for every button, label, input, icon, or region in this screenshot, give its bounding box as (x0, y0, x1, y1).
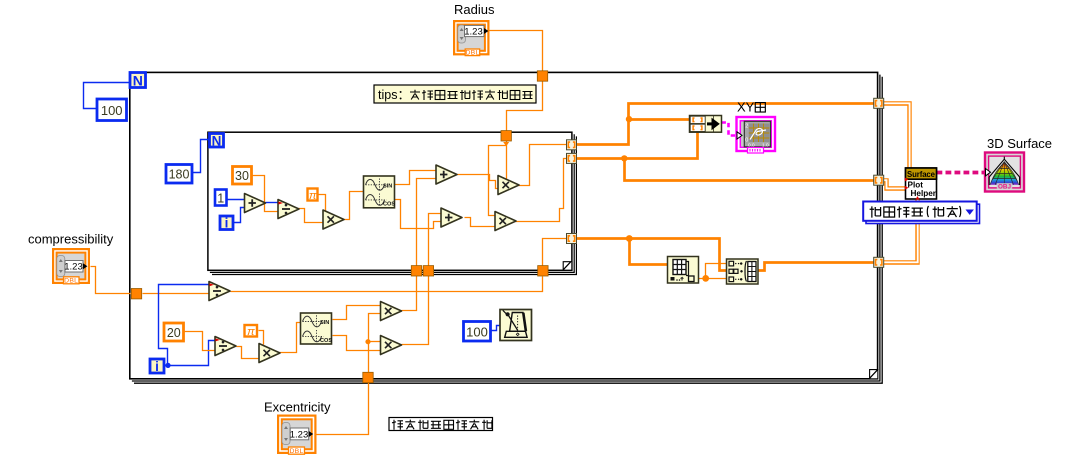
XY graph terminal (737, 117, 776, 153)
red coercion dot divide inner (279, 202, 283, 205)
svg-text:100: 100 (466, 324, 488, 339)
tunnel R (538, 266, 548, 276)
svg-text:N: N (133, 73, 143, 89)
addU triangle inner (436, 165, 457, 184)
wire tunnel L1 up to addU (417, 179, 437, 266)
outer i terminal (150, 359, 164, 374)
sincos node inner (364, 176, 396, 208)
surface plot helper node (905, 168, 937, 200)
wire multiply-pi2 to sincos2 (280, 323, 301, 353)
wire i to add (234, 208, 245, 223)
addL triangle inner (441, 208, 462, 227)
indexing tunnel1 inner right (567, 140, 577, 150)
svg-text:π: π (309, 190, 317, 202)
indexing tunnelB outer right (874, 175, 884, 185)
Excentricity control (278, 416, 315, 455)
svg-text:tips：: tips： (378, 88, 410, 102)
compressibility control (53, 249, 89, 285)
radius input tunnel (537, 71, 547, 81)
build matrix node (727, 259, 759, 284)
wire divide1 long output to tunnelR (231, 277, 543, 292)
3D Surface terminal (985, 153, 1024, 192)
pi constant lower (245, 325, 258, 338)
Radius control (454, 21, 488, 57)
wire divide to multiply-pi (299, 209, 323, 223)
wire addL to mulL (465, 218, 495, 227)
fix-excentricity text box (389, 418, 493, 431)
svg-text:1: 1 (217, 191, 224, 205)
svg-text:20: 20 (167, 326, 181, 340)
junction dot excentricity riser (365, 339, 370, 344)
inner for loop frame (208, 132, 577, 274)
wire excentricity branch to mulE2 (368, 341, 381, 343)
svg-text:Helper: Helper (911, 189, 937, 198)
svg-text:COS: COS (383, 201, 395, 207)
wire radius tunnel inside down (507, 81, 543, 132)
outer loop fold corner (869, 369, 878, 378)
multiply-pi triangle inner (323, 210, 344, 229)
wire divide2 to multiply-pi2 (237, 347, 259, 359)
wire sin out to addU (395, 171, 437, 185)
red coercion dot divide1 (210, 283, 214, 286)
wire mulE2 to tunnel L2 (402, 267, 429, 345)
junction dot i-out (165, 363, 170, 368)
wire i-out to divide2 (165, 341, 215, 366)
wire build-matrix out to tunnelC (thick) (759, 263, 874, 271)
svg-text:100: 100 (101, 103, 123, 118)
indexing tunnelA outer right (874, 98, 884, 108)
junction dot build-matrix row1 branch (702, 275, 709, 282)
svg-text:1.23: 1.23 (64, 262, 83, 273)
pi constant inner (308, 189, 318, 202)
wire mulE1 to tunnel L1 (402, 267, 417, 311)
bundle node (690, 116, 722, 133)
svg-text:1.23: 1.23 (290, 429, 309, 440)
wire radius control to top tunnel (490, 31, 543, 71)
wire tunnel L2 up to addL (429, 214, 441, 266)
junction dot size node branch (626, 235, 633, 242)
svg-text:DBL: DBL (465, 50, 479, 57)
svg-text:30: 30 (235, 169, 249, 183)
constant 180 (166, 165, 192, 184)
excentricity input tunnel (363, 372, 373, 382)
wire 20 to divide2 (183, 332, 215, 351)
svg-text:i: i (225, 216, 229, 231)
add triangle inner (245, 194, 266, 213)
wire sin2 to mulE1 (333, 306, 381, 320)
wire 100 to outer N (84, 83, 130, 109)
wire tunnel3 to build-matrix row2 (thick) (577, 239, 727, 271)
wire tunnelC to helper bottom (2D double) (884, 199, 918, 263)
indexing tunnelC outer right (874, 257, 884, 267)
multiply-pi2 triangle lower (259, 344, 280, 363)
wire addU to mulU (458, 175, 499, 189)
inner loop N terminal (210, 133, 224, 148)
svg-text:DBL: DBL (64, 278, 78, 285)
svg-text:3D Surface: 3D Surface (987, 136, 1052, 151)
wire tunnelB to helper left (2D double) (884, 180, 906, 188)
constant 1 (215, 190, 227, 206)
wire branch to build-matrix row1 (706, 264, 727, 279)
wire branch to tunnelB (625, 159, 874, 181)
wire arrow hook below radius tunnel (503, 142, 509, 146)
svg-text:1.23: 1.23 (464, 26, 483, 37)
indexing tunnel3 inner right (567, 234, 577, 244)
tunnel L2 (423, 266, 433, 276)
junction dot tunnelB branch (621, 155, 627, 161)
wire branch to size node (630, 239, 668, 265)
wire mulU to tunnel1 (519, 145, 567, 186)
mulL triangle inner (495, 212, 516, 231)
svg-text:XY: XY (737, 100, 755, 115)
wire add to divide (266, 202, 279, 204)
wire radius branch to mulL (489, 146, 507, 216)
wire 180 to inner N (193, 140, 209, 173)
svg-text:180: 180 (169, 168, 190, 182)
wire compressibility control to tunnel (91, 267, 131, 294)
wire 30 to divide (252, 176, 279, 212)
constant 100 (97, 99, 127, 121)
plot helper dropdown (863, 202, 977, 221)
svg-text:2: 2 (745, 124, 748, 130)
inner loop fold corner (563, 261, 571, 270)
svg-text:SIN: SIN (320, 320, 329, 326)
tunnel L1 (411, 266, 421, 276)
tips text box (374, 85, 536, 103)
svg-text:Surface: Surface (907, 170, 936, 179)
divide triangle inner (278, 200, 299, 219)
svg-text:N: N (212, 133, 222, 148)
divide1 triangle lower (209, 282, 230, 301)
red coercion dot divide2 (216, 338, 220, 341)
wire cos2 to mulE2 (333, 336, 381, 351)
wire multiply-pi to sincos (345, 192, 364, 220)
constant 100b (464, 322, 491, 342)
svg-text:DBL: DBL (289, 448, 303, 455)
compressibility input tunnel (131, 289, 141, 299)
svg-text:COS: COS (320, 338, 332, 344)
constant 20 (164, 323, 184, 341)
wire excentricity control to tunnel (317, 383, 369, 435)
svg-text:OBJ: OBJ (998, 183, 1011, 190)
wire helper to 3D surface (crimson dashed) (937, 171, 985, 175)
wire radius tunnel down to mulU (506, 141, 508, 181)
indexing tunnel2 inner right (567, 153, 577, 163)
divide2 triangle lower (215, 337, 236, 356)
matrix size node (668, 257, 699, 284)
wire tunnelA to helper top (2D double) (884, 103, 910, 168)
wire 100b to metronome (491, 326, 501, 331)
wire tunnel1 to bundle and tunnelA (thick) (577, 104, 874, 145)
junction dot bundle row1 (626, 116, 632, 122)
wire i-out blue riser to divide1 (159, 285, 209, 366)
wire mulL to tunnel2 (516, 159, 567, 222)
wire comp tunnel to divide1 (143, 293, 209, 295)
radius top tunnel on inner loop (501, 131, 511, 141)
wire 1 to add (227, 199, 245, 201)
mulE1 triangle lower (381, 302, 402, 321)
wire cos out to addL (395, 200, 441, 229)
XY graph label (737, 100, 765, 115)
constant 30 (233, 167, 252, 185)
mulE2 triangle lower (381, 336, 402, 355)
wire pi to multiply (318, 195, 326, 215)
svg-text:i: i (155, 359, 159, 374)
wire branch to bundle row1 (629, 118, 690, 121)
svg-text:Radius: Radius (454, 2, 495, 17)
wire tunnel2 to bundle row2 (thick) (577, 133, 698, 159)
outer loop N terminal (130, 73, 146, 89)
wire tunnelR up to tunnel3 (543, 239, 567, 267)
wire size node out to build-matrix row3 (693, 278, 727, 280)
svg-text:π: π (247, 326, 255, 338)
wire bundle to XY graph (magenta dashed) (722, 123, 737, 136)
sincos2 node lower (301, 313, 333, 344)
svg-text:compressibility: compressibility (28, 232, 114, 247)
mulU triangle inner (498, 176, 519, 195)
inner i terminal (220, 216, 233, 231)
plot helper dropdown shadow (866, 204, 980, 223)
metronome wait node (500, 310, 532, 341)
wire pi2 to multiply-pi2 (259, 331, 264, 345)
wire excentricity riser (369, 314, 381, 377)
svg-text:SIN: SIN (383, 183, 392, 189)
outer for loop frame (130, 72, 882, 383)
svg-text:Excentricity: Excentricity (264, 400, 331, 415)
